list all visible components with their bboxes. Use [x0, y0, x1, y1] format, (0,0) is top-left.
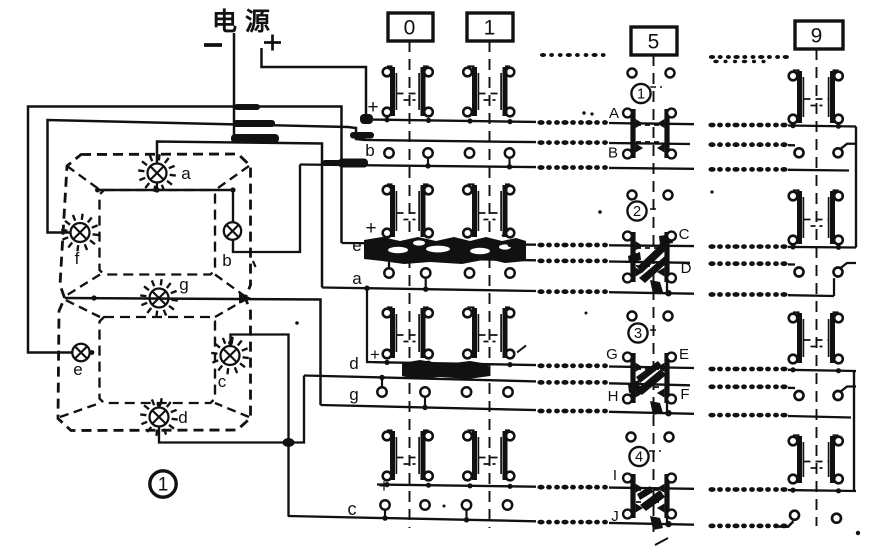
- svg-text:g: g: [179, 275, 188, 294]
- svg-text:e: e: [352, 236, 361, 255]
- svg-text:D: D: [681, 260, 692, 277]
- svg-text:E: E: [679, 346, 689, 363]
- svg-text:3: 3: [634, 326, 642, 342]
- svg-text:A: A: [609, 105, 619, 122]
- svg-text:1: 1: [637, 87, 645, 103]
- svg-text:4: 4: [635, 450, 643, 466]
- svg-text:B: B: [608, 145, 618, 162]
- svg-text:a: a: [181, 164, 191, 183]
- svg-text:2: 2: [633, 204, 641, 220]
- svg-text:c: c: [348, 499, 357, 519]
- svg-text:J: J: [611, 508, 619, 525]
- svg-text:+: +: [365, 218, 376, 239]
- svg-text:G: G: [606, 346, 618, 363]
- svg-text:1: 1: [158, 475, 169, 496]
- svg-text:+: +: [370, 345, 380, 364]
- svg-text:d: d: [349, 354, 358, 373]
- svg-text:+: +: [379, 476, 390, 496]
- svg-text:5: 5: [648, 31, 660, 54]
- svg-text:e: e: [73, 360, 82, 379]
- svg-text:b: b: [222, 251, 231, 270]
- svg-text:b: b: [365, 141, 374, 160]
- svg-text:d: d: [178, 408, 187, 427]
- svg-text:电源: 电源: [212, 8, 278, 36]
- svg-text:F: F: [680, 386, 689, 403]
- svg-text:a: a: [352, 269, 362, 288]
- svg-text:C: C: [679, 226, 690, 243]
- svg-text:f: f: [75, 249, 80, 268]
- svg-text:I: I: [613, 467, 617, 484]
- svg-text:9: 9: [811, 25, 823, 48]
- svg-text:1: 1: [484, 17, 496, 40]
- svg-text:0: 0: [404, 17, 416, 40]
- svg-text:H: H: [608, 388, 619, 405]
- svg-text:c: c: [218, 372, 227, 391]
- svg-text:g: g: [349, 385, 358, 404]
